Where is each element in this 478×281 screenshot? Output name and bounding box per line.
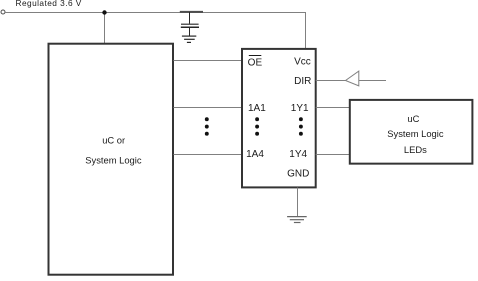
svg-text:LEDs: LEDs — [404, 144, 427, 155]
svg-text:uC or: uC or — [102, 135, 125, 146]
svg-text:1Y1: 1Y1 — [291, 103, 309, 114]
svg-text:DIR: DIR — [294, 76, 311, 87]
wire: GND pin lead — [297, 188, 299, 217]
svg-text:Regulated 3.6 V: Regulated 3.6 V — [16, 0, 82, 8]
svg-text:1A4: 1A4 — [246, 149, 264, 160]
wire: uC box to OE pin — [174, 60, 243, 62]
wire: 1Y1 to LED box — [316, 107, 350, 109]
terminal: regulated 3.6 V input — [1, 10, 5, 14]
wire: junction down to uC box — [104, 12, 106, 45]
svg-text:OE: OE — [248, 57, 263, 68]
svg-text:Vcc: Vcc — [294, 57, 311, 68]
wire: uC box to 1A1 pin — [174, 107, 243, 109]
junction: rail to uC box — [102, 10, 106, 14]
box: uC or System Logic — [49, 44, 174, 275]
buffer U2: DIR driver (points left) — [346, 71, 359, 86]
svg-text:uC: uC — [407, 113, 419, 124]
ellipsis: A pins 2..3 inside IC — [255, 117, 259, 135]
wire: uC box to 1A4 pin — [174, 154, 243, 156]
IC U1: bus transceiver — [242, 49, 316, 188]
wire: rail drop to Vcc pin — [305, 12, 307, 50]
pin label: OE (active low, overline) — [248, 56, 263, 69]
svg-text:System Logic: System Logic — [85, 154, 142, 165]
wire: buffer input stub — [359, 80, 386, 82]
svg-text:System Logic: System Logic — [387, 128, 444, 139]
ground: IC ground — [287, 217, 307, 223]
box: uC System Logic LEDs — [350, 100, 473, 164]
ground: capacitor ground — [182, 36, 196, 42]
wire: 3.6V supply rail — [5, 12, 306, 14]
svg-text:1Y4: 1Y4 — [289, 149, 307, 160]
wire: 1Y4 to LED box — [316, 154, 350, 156]
capacitor C1 (bypass) — [180, 12, 203, 36]
wire: DIR pin to buffer — [316, 80, 346, 82]
ellipsis: Y pins 2..3 inside IC — [299, 117, 303, 135]
svg-text:GND: GND — [287, 169, 309, 180]
svg-text:1A1: 1A1 — [248, 103, 266, 114]
ellipsis: bus continuation between boxes — [205, 117, 209, 135]
